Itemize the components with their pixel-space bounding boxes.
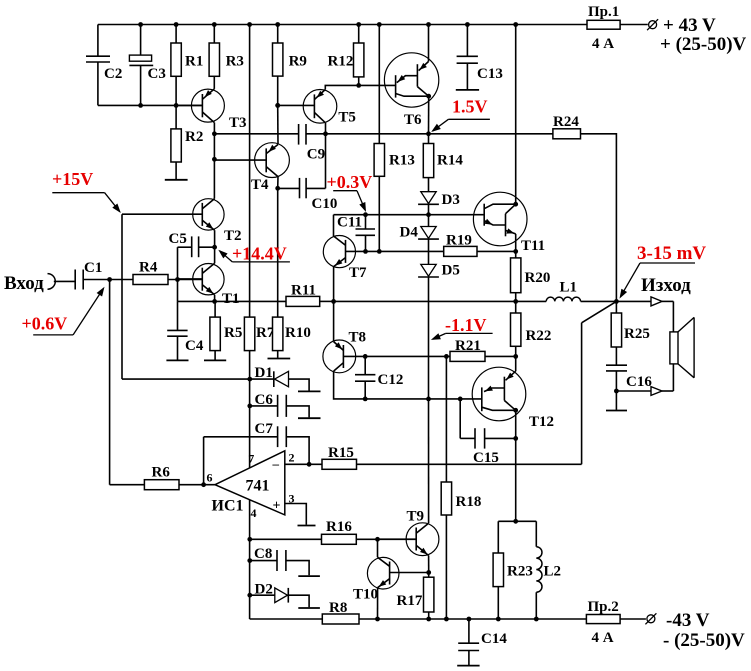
wire T3 collector to T2 collector	[212, 123, 217, 199]
svg-text:C8: C8	[254, 546, 272, 562]
speaker	[670, 317, 694, 377]
svg-text:+14.4V: +14.4V	[232, 243, 287, 263]
svg-text:C15: C15	[473, 450, 499, 466]
ground C16	[606, 391, 627, 411]
node T12 base junctions	[426, 397, 463, 402]
ground R2	[165, 179, 188, 181]
svg-text:4: 4	[251, 506, 257, 520]
svg-text:C16: C16	[626, 374, 652, 390]
svg-text:C12: C12	[378, 372, 404, 388]
wire T1 emitter rail	[178, 299, 287, 304]
svg-text:Пр.2: Пр.2	[588, 599, 619, 615]
wire 1.5V rail (C9 line)	[214, 133, 298, 135]
svg-text:6: 6	[207, 471, 213, 485]
transistor T5	[275, 90, 356, 126]
node output junction	[614, 299, 619, 304]
wire R16 to T9 base	[356, 537, 416, 542]
wire C2/C3 bottom to T3 base	[98, 103, 202, 108]
resistor R10	[268, 317, 311, 358]
svg-text:741: 741	[246, 478, 270, 495]
input terminal	[48, 274, 76, 290]
label +15V	[52, 169, 121, 213]
wire T12 emitter to L2 node	[515, 438, 517, 521]
resistor R15	[322, 445, 357, 469]
resistor R3	[209, 25, 244, 77]
svg-text:D4: D4	[400, 225, 419, 241]
svg-text:+ (25-50)V: + (25-50)V	[660, 34, 747, 55]
svg-text:D3: D3	[442, 192, 460, 208]
fuse Пр.1	[587, 4, 620, 52]
capacitor C12	[355, 354, 403, 401]
label Вход	[4, 273, 44, 294]
capacitor C3	[129, 25, 165, 106]
svg-text:T8: T8	[349, 330, 367, 346]
resistor R9	[273, 25, 307, 106]
svg-text:C9: C9	[307, 147, 325, 163]
capacitor C13	[456, 25, 503, 90]
transistor T3	[176, 76, 246, 131]
wire bus to R16	[250, 538, 322, 540]
resistor R21	[450, 338, 516, 361]
resistor R2	[171, 105, 203, 179]
label +0.3V	[327, 172, 373, 212]
svg-text:L1: L1	[560, 279, 578, 295]
resistor R18	[441, 356, 481, 619]
svg-text:R23: R23	[507, 564, 533, 580]
transistor T7	[323, 215, 367, 302]
svg-text:R2: R2	[185, 129, 203, 145]
svg-text:-1.1V: -1.1V	[445, 315, 487, 335]
transistor T4	[214, 103, 289, 193]
svg-text:T3: T3	[229, 115, 247, 131]
transistor T8	[323, 301, 482, 399]
svg-text:Изход: Изход	[641, 275, 691, 296]
svg-text:T9: T9	[407, 509, 425, 525]
svg-text:R10: R10	[285, 325, 311, 341]
wire T8 base to R21	[365, 354, 450, 359]
inductor L2	[536, 521, 561, 619]
capacitor C8	[250, 546, 320, 576]
wire R19 to T11 emitter node	[477, 250, 516, 252]
svg-text:Пр.1: Пр.1	[588, 4, 619, 20]
svg-text:+: +	[273, 499, 281, 514]
svg-text:C4: C4	[185, 338, 204, 354]
svg-text:C2: C2	[104, 66, 122, 82]
svg-text:1.5V: 1.5V	[452, 96, 488, 116]
transistor T2	[193, 199, 242, 248]
wire L2 top node	[498, 519, 536, 524]
svg-text:2: 2	[289, 451, 295, 465]
svg-text:C3: C3	[148, 66, 166, 82]
diode D2	[250, 582, 320, 609]
svg-text:R4: R4	[139, 260, 158, 276]
wire T7 base to R19	[346, 249, 444, 254]
svg-text:ИС1: ИС1	[212, 498, 244, 515]
wire +43V top rail	[98, 24, 648, 26]
resistor R14	[423, 134, 463, 192]
svg-text:T10: T10	[353, 587, 378, 603]
label +14.4V	[218, 243, 290, 263]
svg-text:3-15 mV: 3-15 mV	[637, 243, 706, 264]
wire T7 node to R20 node	[334, 300, 516, 302]
wire R15 to feedback riser	[357, 463, 582, 465]
svg-text:T12: T12	[529, 414, 554, 430]
svg-text:-43 V: -43 V	[666, 610, 710, 631]
wire input node to R6	[110, 280, 145, 485]
resistor R12	[328, 25, 364, 86]
svg-text:T4: T4	[251, 177, 269, 193]
svg-text:C14: C14	[481, 631, 507, 647]
diode D1	[250, 365, 321, 391]
wire T4 emitter node	[275, 186, 280, 317]
capacitor C9	[299, 124, 326, 163]
svg-text:C11: C11	[337, 215, 362, 231]
op-amp U1 741	[207, 451, 295, 521]
diode D5	[418, 263, 460, 399]
resistor R23	[493, 521, 533, 619]
node rail junctions	[138, 22, 518, 27]
terminal +43V output	[647, 15, 746, 55]
svg-text:D2: D2	[255, 582, 273, 598]
wire feedback from output	[582, 301, 617, 464]
label +0.6V	[22, 287, 105, 335]
svg-text:R18: R18	[456, 494, 482, 510]
resistor R16	[322, 519, 357, 544]
capacitor C5	[169, 231, 218, 301]
resistor R6	[144, 465, 215, 490]
output arrow top	[616, 297, 673, 332]
node +0.3V junction wire	[334, 212, 485, 217]
svg-text:R24: R24	[553, 114, 579, 130]
svg-text:R15: R15	[328, 445, 354, 461]
svg-text:4 А: 4 А	[592, 36, 614, 52]
svg-text:R1: R1	[185, 54, 203, 70]
svg-text:Вход: Вход	[4, 273, 44, 294]
svg-text:- (25-50)V: - (25-50)V	[663, 630, 745, 651]
svg-text:R19: R19	[446, 233, 472, 249]
svg-text:R17: R17	[397, 593, 423, 609]
resistor R7	[244, 317, 274, 351]
wire bus corner to R8	[250, 618, 323, 620]
capacitor C11	[337, 215, 375, 252]
resistor R24	[553, 114, 581, 139]
label 1.5V	[431, 96, 490, 132]
label -1.1V	[431, 315, 493, 340]
resistor R8	[322, 600, 359, 624]
resistor R20	[511, 251, 551, 303]
svg-text:R25: R25	[624, 326, 650, 342]
svg-text:T6: T6	[404, 112, 422, 128]
output arrow bottom	[616, 364, 673, 396]
capacitor C10	[278, 123, 338, 212]
capacitor C15	[460, 399, 516, 466]
svg-text:R14: R14	[437, 153, 463, 169]
label 3-15 mV	[620, 243, 707, 299]
svg-text:R12: R12	[328, 54, 354, 70]
svg-text:C1: C1	[84, 260, 102, 276]
capacitor C2	[86, 25, 122, 106]
svg-text:+0.3V: +0.3V	[327, 172, 373, 192]
svg-text:C5: C5	[169, 231, 187, 247]
svg-text:R8: R8	[329, 600, 347, 616]
diode D3	[418, 192, 460, 215]
wire R24 to output node	[581, 134, 617, 302]
svg-text:R20: R20	[525, 270, 551, 286]
svg-text:R16: R16	[326, 519, 352, 535]
resistor R13	[374, 25, 415, 252]
svg-text:T1: T1	[222, 291, 240, 307]
resistor R5	[204, 301, 242, 360]
svg-text:R22: R22	[526, 328, 552, 344]
svg-text:–: –	[272, 456, 280, 471]
transistor T11	[473, 25, 545, 255]
transistor T9	[378, 399, 439, 575]
svg-text:T7: T7	[349, 265, 367, 281]
svg-text:R13: R13	[389, 153, 415, 169]
svg-text:D1: D1	[255, 365, 273, 381]
svg-text:R21: R21	[455, 338, 481, 354]
capacitor C7	[204, 421, 310, 485]
capacitor C4	[166, 301, 203, 360]
terminal -43V output	[645, 610, 745, 651]
label Изход	[641, 275, 691, 296]
wire -43V bottom rail	[359, 617, 646, 622]
svg-text:+ 43 V: + 43 V	[663, 15, 716, 36]
svg-text:R5: R5	[224, 325, 242, 341]
svg-text:4 А: 4 А	[592, 630, 614, 646]
wire op-amp pin2 to R15	[285, 462, 322, 467]
svg-text:7: 7	[248, 452, 254, 466]
diode D4	[400, 215, 439, 265]
resistor R22	[511, 301, 552, 358]
svg-text:R11: R11	[291, 283, 316, 299]
fuse Пр.2	[586, 599, 620, 646]
resistor R11	[286, 283, 320, 307]
svg-text:D5: D5	[442, 263, 460, 279]
transistor T12	[472, 356, 554, 440]
resistor R25	[611, 301, 650, 365]
wire R11 to T7 emitter node	[320, 299, 336, 304]
wire op-amp pin3 stub	[285, 504, 316, 526]
wire supply bus vertical	[247, 25, 252, 620]
svg-text:R3: R3	[226, 54, 244, 70]
resistor R19	[444, 233, 477, 257]
svg-text:R9: R9	[289, 54, 307, 70]
transistor T10	[353, 539, 429, 619]
svg-text:+15V: +15V	[52, 169, 93, 189]
svg-text:C6: C6	[255, 392, 274, 408]
capacitor C6	[250, 392, 321, 418]
inductor L1	[516, 279, 617, 301]
svg-text:T2: T2	[224, 228, 242, 244]
capacitor C1	[75, 260, 133, 290]
svg-text:T5: T5	[338, 110, 356, 126]
capacitor C14	[457, 619, 507, 666]
svg-text:C13: C13	[477, 66, 503, 82]
capacitor C16	[606, 365, 652, 393]
resistor R17	[397, 573, 434, 620]
resistor R1	[171, 25, 203, 106]
svg-text:+0.6V: +0.6V	[22, 314, 68, 334]
wire T5 emitter node to R24	[323, 131, 553, 136]
svg-text:C10: C10	[312, 196, 338, 212]
transistor T6	[384, 25, 438, 134]
svg-text:T11: T11	[521, 238, 545, 254]
resistor R4	[133, 260, 202, 285]
wire +15V to T2 base and D1	[122, 214, 250, 379]
svg-text:L2: L2	[544, 564, 562, 580]
transistor T1	[178, 247, 240, 307]
wire T5 collector to T6 base	[325, 83, 395, 90]
svg-text:R6: R6	[152, 465, 171, 481]
svg-text:C7: C7	[255, 421, 274, 437]
